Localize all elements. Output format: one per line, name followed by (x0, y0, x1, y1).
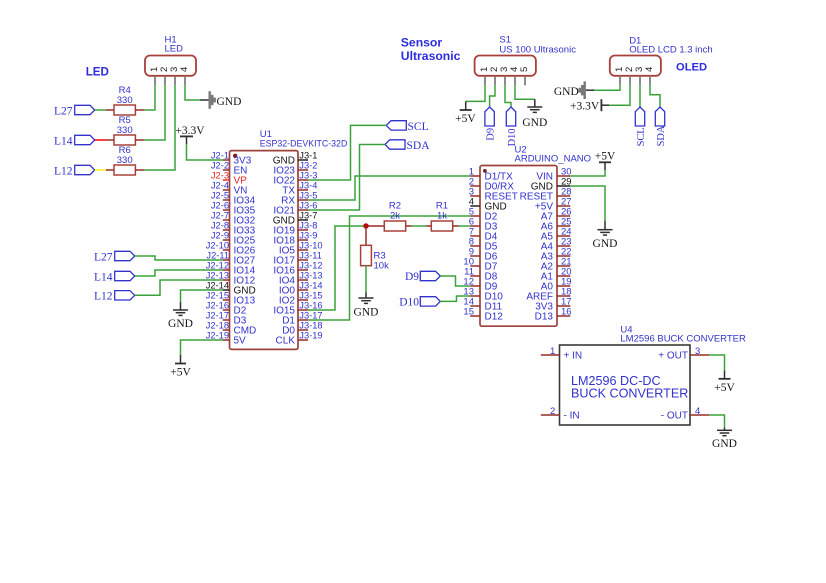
svg-text:D13: D13 (535, 312, 554, 323)
wire J3-17 (D1) to U2 pin5 (308, 216, 470, 320)
svg-text:330: 330 (117, 155, 133, 166)
svg-text:L12: L12 (54, 165, 73, 177)
wire D1 pin3 to SCL flag (639, 85, 641, 107)
wire +5V to U2 pin30 (570, 170, 605, 176)
svg-text:J3-15: J3-15 (299, 291, 322, 301)
svg-text:+5V: +5V (714, 382, 735, 394)
wire D1 pin1 to GND (594, 85, 620, 90)
wire D1 pin2 to +3.3V (609, 85, 630, 105)
wire J3-5 (RX) to U2 pin1 (308, 176, 470, 200)
power +3.3V (D1 pin2) (570, 99, 609, 112)
svg-text:J3-3: J3-3 (299, 171, 317, 181)
svg-text:J2-19: J2-19 (206, 331, 229, 341)
svg-text:J3-7: J3-7 (299, 211, 317, 221)
svg-text:J2-4: J2-4 (211, 181, 229, 191)
flag D10 (S1) (506, 107, 518, 146)
svg-text:+5V: +5V (170, 367, 191, 379)
svg-text:Ultrasonic: Ultrasonic (401, 49, 461, 63)
svg-text:L27: L27 (54, 105, 73, 117)
svg-text:10k: 10k (374, 260, 390, 271)
svg-text:J3-1: J3-1 (299, 151, 317, 161)
svg-text:J2-7: J2-7 (211, 211, 229, 221)
connector D1 OLED LCD 1.3 inch (610, 35, 713, 85)
svg-text:J2-14: J2-14 (206, 281, 229, 291)
svg-text:GND: GND (522, 117, 547, 129)
wire D9 to U2 pin12 (440, 276, 470, 286)
svg-text:US 100 Ultrasonic: US 100 Ultrasonic (499, 44, 576, 55)
svg-text:330: 330 (117, 125, 133, 136)
wire L12 to J2-13 (135, 280, 223, 295)
svg-text:- IN: - IN (564, 411, 580, 422)
svg-text:J3-14: J3-14 (299, 281, 322, 291)
resistor R1 1k (426, 200, 459, 231)
flag D9 (S1) (485, 107, 497, 141)
svg-text:16: 16 (561, 307, 572, 318)
wire D10 to U2 pin13 (440, 296, 470, 301)
svg-text:+ IN: + IN (564, 351, 583, 362)
junction node (R2/R3) (363, 223, 368, 228)
svg-text:GND: GND (217, 96, 242, 108)
svg-text:J3-11: J3-11 (299, 251, 322, 261)
ground (S1 pin4) (522, 99, 547, 129)
wire S1 pin1 to +5V (466, 85, 485, 101)
wire J3-16 (IO15) to R2 (308, 226, 366, 310)
wire H1 pin4 to GND (185, 85, 200, 100)
svg-text:GND: GND (354, 307, 379, 319)
wire J2-14 to GND (181, 290, 223, 302)
svg-text:J2-17: J2-17 (206, 311, 229, 321)
svg-text:GND: GND (712, 438, 737, 450)
wire S1 pin3 to D10 flag (505, 85, 511, 107)
svg-text:2: 2 (550, 406, 555, 417)
svg-text:SDA: SDA (656, 125, 667, 146)
flag SCL (386, 121, 428, 133)
connector S1 US 100 Ultrasonic (475, 35, 577, 86)
svg-text:OLED LCD 1.3 inch: OLED LCD 1.3 inch (629, 44, 712, 55)
svg-text:J2-12: J2-12 (206, 261, 229, 271)
svg-text:J2-6: J2-6 (211, 201, 229, 211)
svg-text:OLED: OLED (676, 61, 707, 73)
svg-text:4: 4 (179, 67, 190, 72)
wire U4 pin4 to GND (709, 415, 724, 427)
wire S1 pin2 to D9 flag (490, 85, 495, 107)
wire H1 pin2 to R5 (144, 85, 165, 140)
svg-text:SDA: SDA (407, 140, 431, 152)
svg-text:- OUT: - OUT (661, 411, 688, 422)
svg-text:+5V: +5V (455, 113, 476, 125)
label Sensor Ultrasonic (401, 35, 461, 62)
svg-text:J3-6: J3-6 (299, 201, 317, 211)
svg-text:J3-9: J3-9 (299, 231, 317, 241)
resistor R2 2k (366, 200, 412, 231)
svg-text:J3-2: J3-2 (299, 161, 317, 171)
wire J2-19 to +5V (181, 340, 223, 355)
wire L14 to J2-12 (135, 270, 223, 276)
svg-text:SCL: SCL (636, 127, 647, 146)
ground (U4 -OUT) (712, 427, 737, 449)
wire U2 pin29 to GND (570, 186, 605, 221)
svg-text:D9: D9 (405, 271, 419, 283)
svg-text:+5V: +5V (595, 151, 616, 163)
svg-text:LED: LED (165, 44, 184, 55)
svg-text:J2-18: J2-18 (206, 321, 229, 331)
svg-text:J2-2: J2-2 (211, 161, 229, 171)
IC U1 ESP32-DEVKITC-32D (206, 129, 348, 349)
IC U2 ARDUINO_NANO (463, 144, 591, 326)
svg-text:L14: L14 (54, 135, 73, 147)
svg-text:LED: LED (86, 66, 109, 79)
svg-text:J2-1: J2-1 (211, 151, 229, 161)
svg-text:J3-13: J3-13 (299, 271, 322, 281)
power +5V (U2 VIN) (595, 151, 616, 170)
resistor R3 10k (361, 226, 389, 271)
svg-text:GND: GND (554, 86, 579, 98)
svg-text:J3-17: J3-17 (299, 311, 322, 321)
flag L27 (upper) (54, 105, 95, 117)
svg-text:+3.3V: +3.3V (570, 100, 600, 112)
svg-text:J3-4: J3-4 (299, 181, 317, 191)
ground (H1 pin4, stepped) (200, 91, 241, 109)
resistor R4 330 (106, 85, 144, 115)
wire D1 pin4 to SDA flag (650, 85, 660, 107)
flag L27 (to IO27) (94, 251, 135, 263)
resistor R6 330 (106, 145, 144, 175)
svg-text:J2-9: J2-9 (211, 231, 229, 241)
svg-text:5V: 5V (234, 336, 247, 347)
wire SCL to J3-3 (IO22) (308, 125, 386, 180)
wire SDA to J3-6 (IO21) (308, 145, 385, 211)
svg-text:J3-5: J3-5 (299, 191, 317, 201)
svg-text:3: 3 (695, 346, 700, 357)
wire H1 pin1 to R4 (144, 85, 155, 110)
wire R2 to R1 (412, 225, 426, 227)
svg-text:1: 1 (550, 346, 555, 357)
connector H1 (LED header) (145, 35, 196, 86)
power +5V (S1 pin1) (455, 101, 476, 124)
flag L12 (upper) (54, 165, 95, 177)
wire L12 to R6 (yellow) (95, 169, 106, 171)
svg-text:GND: GND (168, 318, 193, 330)
svg-text:ESP32-DEVKITC-32D: ESP32-DEVKITC-32D (260, 139, 348, 149)
svg-text:+3.3V: +3.3V (175, 125, 205, 137)
svg-text:4: 4 (695, 406, 700, 417)
svg-text:1k: 1k (437, 210, 447, 221)
svg-text:L12: L12 (94, 291, 113, 303)
IC U4 LM2596 BUCK CONVERTER (541, 325, 746, 425)
wire H1 pin3 to R6 (144, 85, 175, 170)
svg-text:D10: D10 (507, 128, 518, 146)
power +5V (U4 +OUT) (714, 370, 735, 394)
svg-text:D10: D10 (399, 297, 419, 309)
svg-text:D9: D9 (485, 128, 496, 141)
svg-text:J3-8: J3-8 (299, 221, 317, 231)
svg-text:4: 4 (644, 67, 655, 72)
wire S1 pin4 to GND (515, 85, 535, 99)
svg-text:J2-10: J2-10 (206, 241, 229, 251)
flag L14 (upper) (54, 135, 95, 147)
resistor R5 330 (106, 115, 144, 145)
flag D9 (405, 271, 440, 283)
ground (U2 pin29) (593, 221, 618, 250)
svg-text:J2-3: J2-3 (211, 171, 229, 181)
svg-text:J2-5: J2-5 (211, 191, 229, 201)
wire R1 to U2 pin6 (D3) (459, 225, 471, 227)
svg-text:+ OUT: + OUT (658, 351, 688, 362)
wire L27 to J2-11 (135, 256, 223, 260)
svg-text:15: 15 (463, 307, 474, 318)
flag SCL (D1) (635, 107, 647, 146)
svg-text:D12: D12 (485, 312, 504, 323)
power +3.3V (ESP32 3V3) (175, 125, 205, 144)
wire L27 to R4 (95, 109, 106, 111)
svg-text:L14: L14 (94, 271, 113, 283)
power +5V (ESP32 5V pin) (170, 355, 191, 379)
svg-text:J2-15: J2-15 (206, 291, 229, 301)
svg-text:5: 5 (519, 67, 530, 72)
wire +3.3V to J2-1 (187, 144, 223, 160)
svg-text:BUCK CONVERTER: BUCK CONVERTER (571, 387, 688, 401)
svg-text:J2-13: J2-13 (206, 271, 229, 281)
svg-text:LM2596 BUCK CONVERTER: LM2596 BUCK CONVERTER (620, 334, 746, 345)
svg-text:J3-10: J3-10 (299, 241, 322, 251)
svg-text:J2-11: J2-11 (206, 251, 229, 261)
svg-text:J3-12: J3-12 (299, 261, 322, 271)
ground (ESP32 J2-14) (168, 302, 193, 330)
svg-text:SCL: SCL (408, 121, 429, 133)
flag SDA (D1) (655, 107, 667, 146)
svg-text:J2-8: J2-8 (211, 221, 229, 231)
svg-text:J3-19: J3-19 (299, 331, 322, 341)
flag L12 (to IO12) (94, 291, 135, 303)
svg-text:330: 330 (117, 95, 133, 106)
svg-text:GND: GND (593, 238, 618, 250)
flag L14 (to IO14) (94, 271, 135, 283)
wire U4 pin3 to +5V (709, 355, 724, 370)
svg-text:CLK: CLK (276, 336, 296, 347)
ground (D1 pin1, stepped) (554, 81, 594, 99)
wire L14 to R5 (red) (95, 139, 106, 141)
svg-text:J2-16: J2-16 (206, 301, 229, 311)
flag SDA (385, 140, 430, 152)
ground (R3) (354, 293, 379, 319)
svg-text:J3-18: J3-18 (299, 321, 322, 331)
wire R3 to GND (365, 266, 367, 293)
svg-text:2k: 2k (390, 210, 400, 221)
svg-text:L27: L27 (94, 251, 113, 263)
svg-text:Sensor: Sensor (401, 35, 443, 49)
svg-text:ARDUINO_NANO: ARDUINO_NANO (515, 154, 592, 165)
svg-text:J3-16: J3-16 (299, 301, 322, 311)
flag D10 (399, 297, 440, 309)
